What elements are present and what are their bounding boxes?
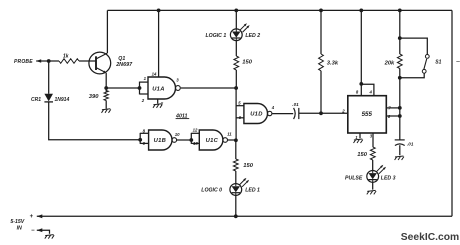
node pin2 junction bbox=[319, 111, 323, 115]
svg-text:+: + bbox=[30, 214, 34, 220]
svg-text:3: 3 bbox=[370, 134, 373, 139]
wire 20k branch from rail bbox=[399, 10, 401, 54]
svg-text:150: 150 bbox=[357, 152, 367, 158]
node S1 bottom junction bbox=[398, 76, 402, 80]
ground below U1A bbox=[153, 104, 162, 108]
wire pin 3 down bbox=[372, 133, 374, 147]
svg-text:LED 1: LED 1 bbox=[245, 188, 260, 194]
svg-text:−: − bbox=[31, 228, 35, 234]
wire cap to 555 pin2 bbox=[299, 112, 348, 114]
svg-text:4: 4 bbox=[271, 105, 275, 110]
wire S1 top bbox=[400, 38, 428, 54]
wire 150 branch to LED1 bbox=[235, 140, 237, 159]
wire LED2 branch from rail bbox=[235, 10, 237, 29]
svg-text:8: 8 bbox=[143, 128, 146, 133]
svg-text:.01: .01 bbox=[407, 141, 414, 146]
wire U1A output bbox=[181, 87, 236, 89]
wire cap to ground bbox=[399, 145, 401, 155]
wire right V+ rail bbox=[451, 10, 453, 216]
svg-text:PULSE: PULSE bbox=[345, 176, 363, 182]
wire U1B output to U1C bbox=[177, 139, 192, 141]
wire top V+ rail bbox=[107, 9, 452, 11]
resistor 150 upper bbox=[234, 56, 239, 70]
svg-text:U1D: U1D bbox=[250, 112, 263, 118]
svg-text:5-15V: 5-15V bbox=[10, 219, 24, 225]
node U1A output junction bbox=[234, 86, 238, 90]
svg-text:2: 2 bbox=[341, 108, 345, 113]
svg-text:SeekIC.com: SeekIC.com bbox=[401, 232, 459, 243]
wire Q1 collector to top rail bbox=[106, 10, 108, 53]
svg-text:11: 11 bbox=[227, 131, 232, 136]
wire R to LED3 bbox=[372, 160, 374, 171]
LED 2 bbox=[230, 29, 242, 41]
wire 20k to pins 7/6 bbox=[399, 69, 401, 140]
U1D input stubs bbox=[236, 105, 244, 107]
svg-text:4: 4 bbox=[369, 89, 373, 94]
wire U1A pin7 to ground bbox=[157, 99, 159, 104]
svg-text:555: 555 bbox=[362, 111, 373, 118]
svg-text:LED 3: LED 3 bbox=[381, 176, 396, 182]
resistor 1k bbox=[59, 59, 79, 64]
node pin14 rail junction bbox=[157, 9, 161, 13]
node S1 top junction bbox=[398, 36, 402, 40]
node emitter junction bbox=[104, 86, 108, 90]
node 555 rail junction bbox=[359, 9, 363, 13]
wire CR1 to U1B inputs bbox=[49, 102, 141, 140]
wire emitter to U1A inputs bbox=[106, 87, 139, 89]
wire pin 7 bbox=[386, 107, 400, 109]
ground below 390 bbox=[102, 109, 111, 113]
op-amp gate U1C bbox=[199, 130, 223, 150]
svg-text:2N697: 2N697 bbox=[115, 62, 133, 68]
resistor 20k bbox=[397, 54, 402, 69]
node U1A input junction bbox=[138, 86, 142, 90]
svg-text:6: 6 bbox=[388, 114, 391, 119]
wire R150 to U1A output node bbox=[235, 70, 237, 88]
node LED2 rail junction bbox=[234, 9, 238, 13]
svg-text:PROBE: PROBE bbox=[14, 59, 33, 65]
svg-text:5: 5 bbox=[238, 101, 241, 106]
op-amp gate U1B bbox=[149, 130, 172, 150]
wire down to U1D inputs bbox=[235, 88, 237, 141]
resistor 3.3k bbox=[319, 54, 324, 71]
wire Q1 emitter down bbox=[105, 73, 107, 88]
svg-text:LED 2: LED 2 bbox=[245, 33, 260, 39]
node 20k rail junction bbox=[398, 9, 402, 13]
wire U1C output bbox=[228, 139, 236, 141]
svg-text:1N914: 1N914 bbox=[55, 97, 70, 103]
node pin6 junction bbox=[398, 114, 402, 118]
wire - terminal to ground bbox=[37, 230, 50, 234]
svg-text:390: 390 bbox=[89, 94, 99, 100]
resistor 3.3k branch wire upper bbox=[320, 10, 322, 54]
svg-text:14: 14 bbox=[152, 72, 157, 77]
resistor 390 bbox=[105, 88, 107, 92]
LED 1 bbox=[230, 184, 242, 196]
svg-text:U1A: U1A bbox=[152, 87, 165, 93]
U1B input bar bbox=[139, 133, 141, 144]
svg-text:10: 10 bbox=[175, 132, 180, 137]
svg-text:U1B: U1B bbox=[154, 138, 167, 144]
resistor 150 lower bbox=[233, 159, 238, 171]
svg-text:150: 150 bbox=[242, 60, 252, 66]
timer U2 555 bbox=[348, 96, 387, 133]
capacitor .01 coupling bbox=[294, 108, 296, 119]
switch S1 bbox=[425, 55, 429, 59]
diode CR1 1N914 bbox=[48, 61, 50, 94]
node pin8/4 junction bbox=[359, 82, 363, 86]
svg-text:1k: 1k bbox=[63, 53, 69, 59]
wire pin 6 bbox=[386, 115, 400, 117]
node LED1 rail junction bbox=[234, 214, 238, 218]
node U1C output junction bbox=[234, 138, 238, 142]
ground below LED3 bbox=[367, 190, 376, 194]
wire LED1 to bottom rail bbox=[235, 195, 237, 216]
wire probe to R1 bbox=[36, 60, 59, 62]
stray tick right edge bbox=[456, 61, 460, 63]
wire U1D output bbox=[272, 113, 293, 115]
wire R1 to Q1 base bbox=[79, 60, 96, 62]
svg-text:LOGIC 0: LOGIC 0 bbox=[201, 188, 222, 194]
svg-text:1: 1 bbox=[144, 76, 147, 81]
node U1B input junction bbox=[138, 138, 142, 142]
wire LED2 to R150 bbox=[235, 41, 237, 56]
svg-text:LOGIC 1: LOGIC 1 bbox=[206, 33, 227, 39]
ground below 555 pin1 bbox=[354, 139, 363, 143]
svg-text:3: 3 bbox=[176, 78, 179, 83]
wire S1 bottom bbox=[400, 73, 424, 78]
ground below timing cap bbox=[395, 156, 404, 160]
wire to pin 4 bbox=[361, 84, 374, 96]
svg-text:CR1: CR1 bbox=[31, 97, 41, 103]
op-amp gate U1A bbox=[148, 77, 176, 99]
transistor Q1 2N697 bbox=[89, 52, 111, 74]
node probe junction bbox=[47, 59, 51, 63]
capacitor .01 timing bbox=[395, 139, 405, 141]
wire bottom V+ rail bbox=[37, 215, 452, 217]
svg-text:.01: .01 bbox=[292, 102, 299, 107]
node 3.3k rail junction bbox=[319, 9, 323, 13]
wire U1A pin14 to rail bbox=[158, 10, 160, 77]
svg-text:13: 13 bbox=[193, 141, 198, 146]
wire R to LED1 bbox=[235, 171, 237, 184]
svg-text:2: 2 bbox=[141, 98, 145, 103]
node U1C input junction bbox=[189, 138, 193, 142]
svg-text:150: 150 bbox=[243, 163, 253, 169]
wire pin 1 to ground bbox=[359, 133, 361, 138]
svg-text:12: 12 bbox=[193, 127, 198, 132]
wire 3.3k to pin2 node bbox=[320, 71, 322, 114]
wire LED3 to ground bbox=[372, 182, 374, 189]
U1A input bar bbox=[139, 82, 141, 95]
probe arrow bbox=[36, 59, 41, 63]
svg-text:8: 8 bbox=[356, 89, 359, 94]
op-amp gate U1D bbox=[244, 104, 268, 124]
node pin7 junction bbox=[398, 106, 402, 110]
svg-text:IN: IN bbox=[17, 226, 22, 232]
svg-text:S1: S1 bbox=[435, 60, 441, 66]
svg-text:U1C: U1C bbox=[206, 138, 219, 144]
resistor 150 at pin3 bbox=[370, 147, 375, 160]
svg-text:3.3k: 3.3k bbox=[327, 61, 339, 67]
ground at - input bbox=[45, 235, 54, 239]
U1C input bar bbox=[190, 133, 192, 144]
svg-text:20k: 20k bbox=[384, 60, 395, 66]
wire 555 supply branch bbox=[360, 10, 362, 95]
LED 3 bbox=[367, 171, 379, 183]
